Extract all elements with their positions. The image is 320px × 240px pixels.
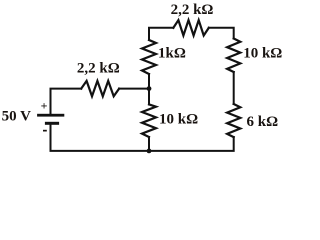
svg-text:2,2 kΩ: 2,2 kΩ (171, 2, 214, 18)
resistor R2 1 kOhm (middle vertical upper) (142, 40, 156, 74)
wire battery positive up to middle rail (51, 89, 82, 114)
svg-text:+: + (41, 98, 48, 112)
resistor R6 10 kOhm (middle vertical lower) (142, 104, 156, 137)
voltage source V1 negative plate (45, 122, 59, 125)
svg-text:6 kΩ: 6 kΩ (247, 114, 279, 130)
voltage source V1 positive plate (37, 114, 64, 117)
wire R2 top to top-left corner then right to R3 (149, 28, 173, 40)
wire bottom rail node B to battery negative (51, 125, 150, 151)
resistor R4 10 kOhm (right vertical upper) (227, 39, 240, 73)
resistor R5 6 kOhm (right vertical lower) (227, 104, 240, 137)
svg-text:10 kΩ: 10 kΩ (243, 45, 282, 61)
wire R5 bottom to bottom-right corner then left to node B (149, 137, 234, 151)
svg-text:2,2 kΩ: 2,2 kΩ (77, 60, 120, 76)
node B junction dot (147, 149, 152, 154)
wire node B up to R6 (148, 137, 150, 151)
wire R6 top to node A (148, 89, 150, 105)
svg-text:1kΩ: 1kΩ (158, 46, 186, 62)
wire node A up to R2 (148, 74, 150, 89)
node A junction dot (147, 86, 152, 91)
resistor R3 2,2 kOhm (top horizontal) (173, 20, 209, 35)
wire R1 to node A (119, 88, 149, 90)
wire R4 bottom to R5 top (233, 72, 235, 104)
svg-text:50 V: 50 V (2, 109, 31, 125)
svg-text:10 kΩ: 10 kΩ (159, 112, 198, 128)
resistor R1 2,2 kOhm (left horizontal) (81, 81, 119, 96)
minus terminal mark (43, 130, 47, 132)
wire R3 right end to top-right corner down to R4 (209, 28, 234, 39)
